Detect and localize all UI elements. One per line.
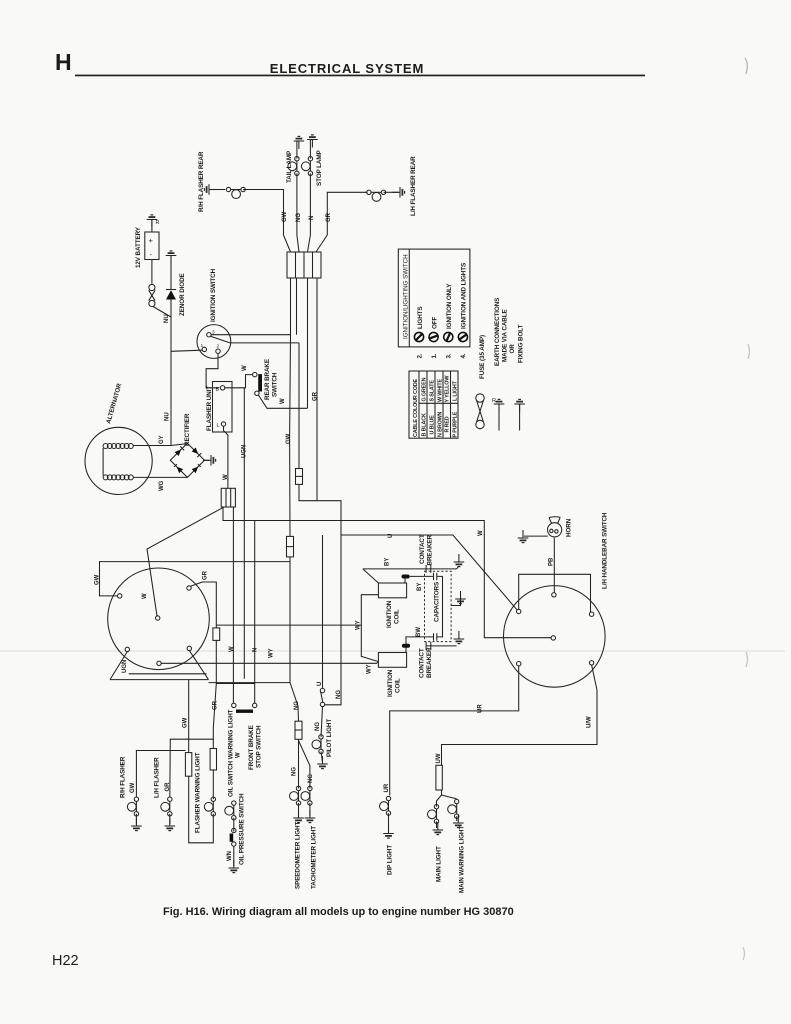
earth (main light) [433, 822, 444, 835]
terminal bottom right [187, 646, 191, 650]
earth (contact breaker top) [454, 554, 465, 567]
svg-text:TACHOMETER LIGHT: TACHOMETER LIGHT [311, 826, 318, 889]
svg-text:L LIGHT: L LIGHT [453, 380, 459, 401]
oil pressure switch body [230, 834, 234, 842]
wire oil chain [233, 818, 235, 832]
bulb main warning light [448, 799, 459, 818]
wire battery to fuse [151, 260, 153, 284]
wire GW from bulb to connector [243, 190, 290, 253]
pilot switch lever [321, 692, 323, 703]
horn [548, 517, 562, 537]
svg-text:GR: GR [203, 570, 209, 580]
svg-text:UR: UR [384, 783, 390, 792]
wire NG tail bulb to connector [297, 173, 299, 252]
headlamp body [108, 568, 210, 670]
svg-text:R RED: R RED [445, 416, 451, 432]
rear brake switch body [258, 374, 262, 391]
HT connector blob 2 [402, 644, 410, 648]
svg-text:P PURPLE: P PURPLE [453, 411, 459, 437]
wire t2 to flasher unit B [206, 353, 219, 387]
connector (2-way) [296, 469, 303, 485]
bulb tail lamp [288, 157, 299, 176]
svg-text:DIP LIGHT: DIP LIGHT [387, 845, 394, 875]
terminal 1 [202, 347, 206, 351]
svg-text:EARTH CONNECTIONS: EARTH CONNECTIONS [494, 298, 501, 366]
contact breaker points top [426, 565, 431, 573]
earth (oil pressure switch) [229, 860, 240, 873]
wire to earth [321, 751, 323, 762]
scan mark lower right [746, 652, 748, 667]
terminal L [221, 422, 225, 426]
svg-text:GW: GW [282, 211, 288, 222]
svg-text:L/H HANDLEBAR SWITCH: L/H HANDLEBAR SWITCH [602, 512, 609, 589]
diode top-right [192, 448, 202, 458]
WY link bracket [361, 595, 378, 661]
wire to main warning bulb [442, 795, 457, 799]
alternator body [85, 427, 152, 494]
svg-text:BREAKER: BREAKER [427, 535, 434, 566]
wire earth to tail bulb [296, 141, 298, 159]
wire BY top [363, 569, 457, 583]
wire to earth [456, 816, 458, 821]
wire pilot feed inside shell [129, 673, 207, 675]
scan mark top right [745, 58, 747, 74]
svg-text:OFF: OFF [432, 316, 439, 329]
svg-text:IGNITION ONLY: IGNITION ONLY [446, 283, 453, 329]
ignition switch body [197, 325, 231, 359]
svg-text:GW: GW [183, 717, 189, 728]
connector UW [436, 765, 442, 790]
connector (ballast) on GW warning [185, 753, 191, 777]
svg-text:IGNITION: IGNITION [386, 600, 393, 628]
wire GW trunk [289, 335, 292, 537]
wire earth to battery [151, 220, 153, 233]
alternator coil upper [103, 444, 133, 449]
earth (main warning light) [453, 815, 464, 828]
svg-text:R: R [156, 220, 160, 226]
svg-text:IGNITION AND LIGHTS: IGNITION AND LIGHTS [461, 263, 468, 329]
terminal top [552, 593, 556, 597]
svg-text:W: W [242, 365, 248, 371]
earth above battery [147, 215, 158, 228]
svg-text:U: U [317, 682, 323, 686]
earth (tail lamp) [294, 136, 305, 149]
earth (R/H flasher) [131, 818, 142, 831]
wire BW coil2 to capacitor [406, 637, 433, 653]
wire GW trunk lower [290, 557, 299, 721]
terminal bottom centre [157, 661, 161, 665]
wire GW warning drop [188, 680, 190, 753]
earth (capacitors mid) [455, 591, 466, 604]
front brake stop switch left terminal [232, 703, 236, 707]
wire connector to bulb [212, 770, 214, 799]
headlamp shell left diagonal [110, 652, 127, 680]
svg-text:BY: BY [385, 558, 391, 566]
earth (tachometer) [305, 810, 316, 823]
terminal bottom right [589, 661, 593, 665]
wire NG pilot riser [325, 535, 341, 705]
wire U pilot feed [322, 535, 324, 688]
svg-text:WN: WN [227, 851, 233, 861]
wire GY coil to rectifier [133, 444, 187, 446]
legend box [398, 249, 470, 347]
svg-text:W: W [280, 398, 286, 404]
svg-text:BREAKER: BREAKER [426, 647, 433, 678]
svg-text:R: R [492, 398, 496, 404]
headlamp shell right diagonal [189, 651, 208, 680]
wire earth to diode [170, 256, 172, 290]
terminal 3 [207, 333, 211, 337]
wire N stop bulb to connector [308, 173, 311, 252]
svg-text:TAIL LAMP: TAIL LAMP [286, 151, 293, 183]
svg-text:MAIN LIGHT: MAIN LIGHT [436, 846, 443, 882]
svg-text:H22: H22 [52, 953, 79, 969]
pilot switch lower terminal [320, 702, 324, 706]
position symbol 1 [427, 331, 439, 343]
svg-text:W WHITE: W WHITE [438, 379, 444, 402]
diode bottom-right [192, 464, 201, 473]
svg-text:ALTERNATOR: ALTERNATOR [105, 382, 123, 424]
svg-text:NG: NG [296, 213, 302, 222]
rear brake switch lower terminal [255, 391, 259, 395]
earth (contact breaker bottom) [454, 631, 465, 644]
bulb R/H flasher [127, 797, 138, 816]
svg-text:S SLATE: S SLATE [430, 380, 436, 402]
coil link [102, 448, 104, 476]
svg-text:N BROWN: N BROWN [438, 411, 444, 437]
wire bulb to earth [169, 814, 171, 824]
svg-text:WY: WY [367, 664, 373, 674]
headlamp shell base [110, 679, 209, 681]
svg-text:WG: WG [159, 480, 165, 491]
svg-text:SWITCH: SWITCH [272, 372, 279, 397]
earth above zener diode [166, 251, 177, 264]
coil1 HT stub [404, 576, 406, 583]
svg-text:W: W [229, 646, 235, 652]
svg-text:W: W [478, 530, 484, 536]
earth (L/H flasher) [165, 818, 176, 831]
capacitor 2 [434, 633, 437, 641]
svg-text:L/H FLASHER REAR: L/H FLASHER REAR [410, 156, 417, 216]
svg-text:BY: BY [417, 583, 423, 591]
svg-text:N: N [253, 648, 259, 652]
svg-text:NG: NG [292, 767, 298, 776]
connector block (4-way) [287, 252, 321, 278]
wire t3 to connector cell1 [211, 278, 290, 335]
oil lamp terminal upper [225, 801, 236, 820]
wire flasher unit L to W drop [224, 426, 228, 488]
svg-text:UGN: UGN [242, 445, 248, 458]
wire capacitor mid earth stub [451, 599, 460, 606]
ignition coil 2 [378, 653, 406, 668]
fuse (in-line) [149, 284, 155, 306]
wire to earth [298, 803, 300, 816]
svg-text:B: B [216, 387, 220, 393]
svg-text:ZENOR DIODE: ZENOR DIODE [179, 273, 186, 316]
connector on GR drop [213, 628, 220, 641]
wire t1 to NU [171, 350, 202, 351]
earth (speedometer) [293, 810, 304, 823]
wire UW from handlebar to main lights [442, 665, 598, 765]
earth (L/H flasher rear) [392, 187, 405, 198]
svg-text:UR: UR [478, 704, 484, 713]
svg-text:U/W: U/W [587, 716, 593, 728]
wire W main drop [232, 507, 234, 703]
svg-text:FRONT BRAKE: FRONT BRAKE [248, 725, 255, 770]
wire GW headlamp [100, 562, 291, 596]
terminal left [118, 594, 122, 598]
earth (stop lamp) [307, 135, 318, 148]
terminal bottom left [125, 647, 129, 651]
svg-text:NG: NG [315, 722, 321, 731]
svg-text:CABLE COLOUR CODE: CABLE COLOUR CODE [413, 379, 419, 437]
svg-text:NG: NG [336, 690, 342, 699]
wire B to rear brake switch [225, 375, 253, 388]
svg-text:IGNITION SWITCH: IGNITION SWITCH [210, 268, 217, 322]
earth legend bolt [514, 399, 525, 430]
svg-text:W: W [223, 474, 229, 480]
connector on flasher warning [210, 749, 216, 771]
svg-text:IGNITION/LIGHTING SWITCH: IGNITION/LIGHTING SWITCH [403, 254, 410, 339]
terminal bottom left [517, 662, 521, 666]
svg-text:MADE VIA CABLE: MADE VIA CABLE [502, 309, 509, 362]
position symbol 3 [442, 331, 454, 343]
scan mark bottom right [743, 947, 745, 960]
switch lever [211, 336, 230, 343]
wire GW warning lower loop [189, 776, 214, 843]
svg-text:GY: GY [159, 435, 165, 444]
diode top-left [175, 446, 185, 456]
svg-text:CONTACT: CONTACT [419, 534, 426, 564]
bulb speedometer light [290, 786, 301, 805]
svg-text:STOP LAMP: STOP LAMP [316, 150, 323, 186]
front brake stop switch body [236, 710, 253, 713]
bulb L/H flasher [161, 797, 172, 816]
svg-text:-: - [150, 250, 153, 259]
svg-text:W: W [142, 593, 148, 599]
svg-text:IGNITION: IGNITION [387, 669, 394, 697]
svg-text:NG: NG [308, 774, 314, 783]
connector (3-way) [221, 488, 235, 507]
wire UGN drop from B wire [243, 388, 245, 679]
wire GR headlamp [191, 582, 217, 628]
zener diode [166, 290, 176, 300]
svg-text:Y YELLOW: Y YELLOW [445, 375, 451, 403]
position symbol 4 [458, 332, 469, 343]
svg-text:+: + [149, 236, 154, 245]
bulb flasher warning light [204, 797, 215, 816]
svg-text:2: 2 [217, 344, 220, 350]
wire to earth [436, 821, 438, 828]
wire PB horn to switch [553, 538, 555, 593]
svg-text:GR: GR [313, 391, 319, 401]
switch link bracket [519, 574, 591, 612]
bulb L/H flasher rear [367, 190, 386, 201]
svg-text:L/H FLASHER: L/H FLASHER [154, 757, 161, 798]
svg-text:FUSE (35 AMP): FUSE (35 AMP) [479, 335, 486, 379]
bulb main light [428, 805, 439, 824]
svg-text:H: H [55, 49, 72, 75]
capacitors dashed box [425, 571, 452, 641]
flasher unit box [213, 382, 233, 433]
terminal top right [589, 612, 593, 616]
diode bottom-left [174, 464, 183, 473]
legend divider [408, 249, 410, 347]
wire trunk down to 2-way connector [298, 343, 300, 469]
svg-text:1: 1 [201, 343, 204, 349]
svg-text:OIL PRESSURE SWITCH: OIL PRESSURE SWITCH [239, 793, 246, 865]
earth (R/H flasher rear) [204, 184, 217, 195]
scan streak [0, 650, 785, 652]
header rule [75, 75, 645, 77]
wire BY coil1 to capacitor [410, 575, 433, 577]
wire to speedo bulb [298, 739, 300, 788]
oil switch lower terminal [232, 842, 236, 846]
svg-text:GW: GW [95, 574, 101, 585]
wire U to handlebar switch [299, 484, 517, 609]
wire GR branch to coils [216, 624, 361, 626]
earth (rectifier) [203, 455, 216, 466]
wire branch to N [216, 683, 254, 685]
wire cell3 down [307, 278, 309, 408]
wire N trunk [254, 521, 256, 704]
wire bulb to earth [135, 814, 137, 824]
svg-text:UGN: UGN [122, 660, 128, 673]
wire rectifier to earth [205, 459, 210, 461]
svg-text:HORN: HORN [566, 518, 573, 537]
battery 12V [145, 232, 159, 260]
wire W centre feed long [223, 507, 551, 638]
svg-text:2.: 2. [417, 353, 424, 358]
connector speedometer [295, 721, 302, 739]
bulb tachometer light [301, 786, 312, 805]
svg-text:Fig. H16. Wiring diagram all: Fig. H16. Wiring diagram all models up t… [163, 906, 514, 918]
svg-text:RECTIFIER: RECTIFIER [184, 413, 191, 446]
svg-text:PILOT LIGHT: PILOT LIGHT [326, 719, 333, 757]
rectifier bridge [170, 443, 204, 477]
position symbol 2 [414, 332, 423, 341]
wire L/H flasher [170, 739, 214, 797]
wire to earth [388, 813, 390, 831]
svg-text:N: N [309, 216, 315, 220]
terminal centre [551, 636, 555, 640]
svg-text:B BLACK: B BLACK [422, 413, 428, 436]
wire fuse to zener junction [153, 307, 171, 318]
svg-text:NU: NU [165, 412, 171, 421]
svg-text:U: U [388, 534, 394, 538]
svg-text:OR: OR [509, 344, 516, 354]
wire W rear brake to trunk [258, 395, 307, 408]
HT connector blob 1 [402, 575, 410, 579]
svg-text:FLASHER WARNING LIGHT: FLASHER WARNING LIGHT [195, 752, 202, 833]
svg-text:COIL: COIL [395, 678, 402, 693]
wire pilot to bulb [321, 707, 323, 737]
svg-text:MAIN WARNING LIGHT: MAIN WARNING LIGHT [459, 826, 466, 893]
svg-text:OIL SWITCH WARNING LIGHT: OIL SWITCH WARNING LIGHT [228, 709, 235, 797]
svg-text:L: L [217, 423, 220, 429]
svg-text:GR: GR [213, 700, 219, 710]
svg-text:UW: UW [436, 753, 442, 763]
wire earth stub [457, 566, 459, 569]
bulb R/H flasher rear [226, 187, 245, 198]
wire earth to bulb [210, 189, 225, 191]
connector (2-way) on GW trunk [287, 536, 294, 557]
svg-text:GW: GW [286, 433, 292, 444]
svg-text:W: W [236, 752, 242, 758]
wire to earth WN [233, 846, 235, 866]
wire GR trunk (connector cell4 down to bottom-left lamps) [316, 278, 318, 501]
earth (horn) [518, 530, 529, 543]
wire breaker bottom to earth [426, 645, 457, 647]
svg-text:3.: 3. [446, 353, 453, 358]
wire NG tachometer [299, 741, 310, 789]
terminal centre [156, 616, 160, 620]
capacitor bus [437, 576, 443, 637]
wire horn to earth [524, 535, 548, 537]
wire GR drop lower [213, 640, 216, 748]
capacitor 1 [434, 573, 437, 581]
terminal B [220, 386, 224, 390]
wire bulb to earth [384, 191, 399, 193]
wire to headlamp feed [147, 507, 224, 616]
wire R/H flasher [136, 751, 185, 798]
svg-text:CONTACT: CONTACT [419, 648, 426, 678]
svg-text:NU: NU [164, 314, 170, 323]
front brake stop switch right terminal [253, 703, 257, 707]
scan mark mid right [748, 344, 750, 359]
pilot switch upper terminal [320, 688, 324, 692]
wire lever to cell2/cell3 and pilot feed [230, 342, 299, 344]
svg-text:LIGHTS: LIGHTS [417, 307, 424, 330]
fuse symbol [476, 394, 484, 429]
bulb dip light [380, 796, 391, 815]
wire WG coil to rectifier [133, 476, 187, 478]
svg-text:GR: GR [326, 212, 332, 222]
wire UR from handlebar to dip [390, 666, 519, 796]
wire NU diode down to rectifier [170, 300, 172, 446]
wire shell base extension [209, 682, 291, 684]
svg-text:R/H FLASHER REAR: R/H FLASHER REAR [198, 151, 205, 212]
earth (pilot light) [317, 756, 328, 769]
svg-text:U BLUE: U BLUE [430, 415, 436, 435]
ignition coil 1 [378, 583, 406, 598]
svg-text:WY: WY [356, 620, 362, 630]
svg-text:FIXING BOLT: FIXING BOLT [518, 324, 525, 363]
svg-text:GR: GR [165, 782, 171, 792]
svg-text:COIL: COIL [394, 609, 401, 624]
terminal 2 [216, 349, 220, 353]
svg-text:REAR BRAKE: REAR BRAKE [264, 359, 271, 400]
wire GR connector to bulb [316, 192, 368, 252]
svg-text:R/H FLASHER: R/H FLASHER [120, 756, 127, 798]
earth (dip light) [383, 826, 394, 839]
svg-text:SPEEDOMETER LIGHT: SPEEDOMETER LIGHT [295, 822, 302, 889]
oil pressure switch terminal [232, 828, 236, 832]
svg-text:G GREEN: G GREEN [422, 377, 428, 401]
wire WY headlamp to coils [161, 662, 377, 664]
wire to main bulb [437, 790, 442, 807]
svg-text:WY: WY [269, 648, 275, 658]
table frame [409, 371, 458, 438]
bulb stop lamp [301, 157, 312, 176]
svg-text:NG: NG [294, 701, 300, 710]
rear brake switch upper terminal [253, 372, 257, 376]
svg-text:1.: 1. [431, 353, 438, 358]
svg-text:CAPACITORS: CAPACITORS [434, 582, 441, 622]
svg-text:PB: PB [549, 557, 555, 566]
svg-text:ELECTRICAL SYSTEM: ELECTRICAL SYSTEM [270, 61, 424, 76]
wire cell2 down [296, 278, 298, 335]
